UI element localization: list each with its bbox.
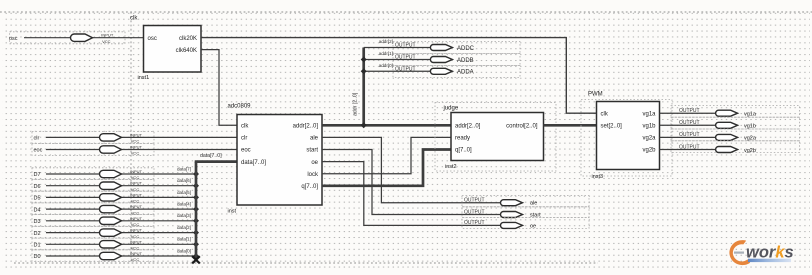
svg-text:INPUT: INPUT [101,33,114,38]
svg-text:osc: osc [9,36,18,42]
wire D7 to data bus [46,173,196,175]
svg-text:addr[2..0]: addr[2..0] [455,124,481,130]
selection box vg2b pin [671,141,800,153]
svg-text:data[7]: data[7] [177,166,191,171]
svg-text:data[0]: data[0] [177,248,191,253]
svg-text:INPUT: INPUT [130,239,143,244]
svg-text:clk: clk [601,111,609,117]
bus control[2..0] judge to PWM [544,124,597,127]
selection box ADDB pin [393,54,520,66]
junction on data bus at D3 [193,218,199,224]
selection box ADDA pin [393,66,520,78]
junction addr bus tee [361,122,367,128]
selection box D6 pin [32,180,154,192]
svg-text:ready: ready [455,136,470,142]
vertical bus label addr[2..0] [353,92,359,116]
input pin D3 [34,216,143,227]
selection box D7 pin [32,168,154,180]
svg-text:ale: ale [530,201,537,207]
svg-text:data[3]: data[3] [177,213,191,218]
output pin ADDB [395,55,474,64]
svg-text:VCC: VCC [131,257,140,262]
output pin ale [464,198,537,207]
svg-text:data[7..0]: data[7..0] [200,153,222,159]
svg-text:oe: oe [311,160,318,166]
output pin oe [464,220,536,229]
selection box D3 pin [32,215,154,227]
svg-text:VCC: VCC [131,139,140,144]
svg-text:start: start [306,148,318,154]
svg-text:data[5]: data[5] [177,190,191,195]
wire label data[1] [177,237,191,242]
input pin osc [9,33,114,44]
block U3 judge [443,106,544,171]
svg-text:ADDC: ADDC [457,46,475,52]
output pin vg1b [679,120,756,130]
wire addr tap to ADDB [364,59,431,61]
bus label data[7..0] [200,153,222,159]
selection box judge block [435,103,556,172]
output pin ADDA [395,66,474,75]
selection box oe pin [462,218,589,229]
junction on data bus at D0 [193,253,199,259]
selection box eoc pin [32,143,154,155]
svg-text:INPUT: INPUT [130,216,143,221]
input pin clr [34,132,143,143]
svg-text:INPUT: INPUT [130,145,143,150]
svg-text:data[1]: data[1] [177,237,191,242]
svg-text:addr [2..0]: addr [2..0] [353,92,359,116]
selection box D4 pin [32,203,154,215]
wire label addr[1] [379,51,393,56]
svg-text:clr: clr [241,136,247,142]
wire label data[3] [177,213,191,218]
svg-text:clk20K: clk20K [179,36,197,42]
dangling bus end X mark [192,256,200,263]
bus q[7..0] adc0809 to judge [322,150,451,186]
junction on data bus at D2 [193,230,199,236]
selection box vg1b pin [671,117,800,129]
input pin D2 [34,228,143,239]
svg-text:clk: clk [241,124,249,130]
svg-text:eoc: eoc [34,148,43,154]
selection box D1 pin [32,238,154,250]
selection box PWM block [581,100,672,177]
wire addr tap to ADDC [364,47,431,49]
svg-text:addr[1]: addr[1] [379,51,393,56]
wire oe to output pin [322,162,501,226]
junction addr tap addr[0] [361,68,367,74]
svg-text:data[7..0]: data[7..0] [241,160,266,166]
svg-text:data[4]: data[4] [177,202,191,207]
output pin vg2b [679,144,756,154]
svg-text:OUTPUT: OUTPUT [679,120,700,126]
wire eoc to adc0809 [46,149,237,151]
svg-text:INPUT: INPUT [130,192,143,197]
selection box D0 pin [32,250,154,262]
selection box vg1a pin [671,106,800,118]
input pin D7 [34,169,143,180]
junction on data bus at D4 [193,206,199,212]
junction on data bus at D5 [193,194,199,200]
svg-text:vg1a: vg1a [642,111,656,117]
svg-text:ADDB: ADDB [457,58,474,64]
wire D3 to data bus [46,220,196,222]
svg-text:D5: D5 [34,196,41,202]
svg-text:inst: inst [228,209,237,215]
svg-text:VCC: VCC [131,151,140,156]
svg-text:INPUT: INPUT [130,204,143,209]
bus addr[2..0] vertical riser [362,48,365,127]
svg-text:INPUT: INPUT [130,251,143,256]
wire D0 to data bus [46,255,196,257]
svg-text:inst3: inst3 [592,174,604,180]
svg-text:D7: D7 [34,172,41,178]
wire label data[7] [177,166,191,171]
svg-text:OUTPUT: OUTPUT [679,132,700,138]
wire clk640K to adc0809 clk [201,50,237,126]
svg-text:PWM: PWM [588,92,603,98]
svg-text:D6: D6 [34,184,41,190]
selection box ADDC pin [393,42,520,54]
wire start to output pin [322,150,501,215]
wire D2 to data bus [46,232,196,234]
input pin D6 [34,181,143,192]
svg-text:D3: D3 [34,219,41,225]
selection box D2 pin [32,226,154,238]
svg-text:INPUT: INPUT [130,169,143,174]
svg-text:ADDA: ADDA [457,70,474,76]
svg-text:inst2: inst2 [445,164,457,170]
wire osc pin to clk block [24,37,144,39]
wire D1 to data bus [46,243,196,245]
wire PWM vg1a to pin [660,112,716,114]
svg-text:OUTPUT: OUTPUT [395,55,416,61]
wire lock to judge ready [322,137,451,173]
svg-text:OUTPUT: OUTPUT [395,66,416,72]
input pin D5 [34,192,143,203]
selection box vg2a pin [671,129,800,141]
input pin D0 [34,251,143,262]
junction on data bus at D7 [193,171,199,177]
svg-text:inst1: inst1 [138,75,150,81]
svg-text:control[2..0]: control[2..0] [506,124,538,130]
svg-text:INPUT: INPUT [130,181,143,186]
svg-text:eoc: eoc [241,148,251,154]
svg-text:vg1b: vg1b [642,124,656,130]
svg-text:INPUT: INPUT [130,228,143,233]
output pin start [464,209,541,218]
selection box start pin [462,207,589,218]
svg-text:D1: D1 [34,243,41,249]
svg-text:ale: ale [310,136,319,142]
svg-text:lock: lock [307,172,319,178]
svg-text:data[6]: data[6] [177,178,191,183]
selection box ale pin [462,196,589,207]
wire clr to adc0809 [46,136,237,138]
svg-text:addr[2]: addr[2] [379,39,393,44]
junction addr tap addr[1] [361,57,367,63]
svg-text:judge: judge [443,106,459,112]
svg-text:vg2b: vg2b [642,148,656,154]
wire clk20K to PWM clk [201,38,597,114]
input pin D1 [34,239,143,250]
block U2 adc0809 [228,104,323,215]
junction on data bus at D6 [193,183,199,189]
wire label addr[2] [379,39,393,44]
input pin D4 [34,204,143,215]
svg-text:clk: clk [130,16,138,22]
svg-text:addr[2..0]: addr[2..0] [293,124,319,130]
input pin eoc [34,145,143,156]
junction on data bus at D1 [193,241,199,247]
svg-text:addr[0]: addr[0] [379,63,393,68]
svg-text:D4: D4 [34,207,41,213]
bus addr[2..0] adc0809 to judge [322,124,451,127]
output pin ADDC [395,43,475,52]
svg-text:q[7..0]: q[7..0] [455,148,472,154]
svg-text:VCC: VCC [102,39,111,44]
wire D5 to data bus [46,196,196,198]
svg-text:vg2a: vg2a [642,136,656,142]
svg-text:OUTPUT: OUTPUT [464,220,485,226]
svg-text:adc0809: adc0809 [228,104,252,110]
wire ale to output pin [322,137,501,202]
e-works watermark logo [729,240,793,265]
bus data[7..0] to adc0809 [195,160,237,163]
block U4 PWM [588,92,660,181]
svg-text:OUTPUT: OUTPUT [464,198,485,204]
wire D6 to data bus [46,185,196,187]
svg-text:INPUT: INPUT [130,132,143,137]
wire PWM vg2a to pin [660,136,716,138]
svg-text:q[7..0]: q[7..0] [301,184,318,190]
selection box clr pin [32,131,154,143]
wire PWM vg1b to pin [660,124,716,126]
svg-text:OUTPUT: OUTPUT [679,144,700,150]
svg-text:set[2..0]: set[2..0] [601,124,623,130]
selection box around osc pin [10,32,126,44]
svg-text:clr: clr [34,136,40,142]
wire label data[0] [177,248,191,253]
svg-text:vg1a: vg1a [744,112,757,118]
svg-text:OUTPUT: OUTPUT [679,108,700,114]
svg-text:OUTPUT: OUTPUT [464,209,485,215]
wire addr tap to ADDA [364,70,431,72]
svg-text:clk640K: clk640K [176,48,197,54]
svg-text:OUTPUT: OUTPUT [395,43,416,49]
wire label data[2] [177,225,191,230]
output pin vg2a [679,132,757,142]
svg-text:D0: D0 [34,254,41,260]
block U1 clk divider [130,16,201,82]
svg-text:vg2b: vg2b [744,148,756,154]
wire PWM vg2b to pin [660,149,716,151]
wire D4 to data bus [46,208,196,210]
wire label data[6] [177,178,191,183]
bus data[7..0] vertical [195,162,198,259]
wire label data[4] [177,202,191,207]
selection box D5 pin [32,191,154,203]
svg-text:data[2]: data[2] [177,225,191,230]
output pin vg1a [679,108,757,118]
svg-text:osc: osc [148,36,157,42]
svg-text:D2: D2 [34,231,41,237]
svg-text:oe: oe [530,223,536,229]
wire label addr[0] [379,63,393,68]
wire label data[5] [177,190,191,195]
